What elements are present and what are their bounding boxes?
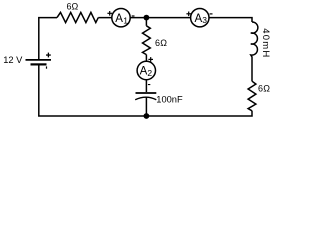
svg-text:A: A — [140, 65, 148, 77]
svg-text:1: 1 — [123, 16, 128, 26]
ammeter A1 circle — [112, 9, 130, 27]
svg-text:A: A — [195, 13, 203, 25]
battery V1 : plus sign — [46, 53, 51, 58]
ammeter A1 minus terminal sign — [132, 15, 135, 16]
battery V1 : short plate — [31, 63, 47, 65]
svg-text:100nF: 100nF — [156, 95, 183, 105]
svg-text:2: 2 — [147, 68, 152, 78]
svg-text:12 V: 12 V — [3, 55, 23, 65]
resistor R1 6 ohm (top) — [57, 12, 98, 22]
ammeter A2 plus terminal sign — [148, 57, 153, 62]
svg-text:6Ω: 6Ω — [67, 1, 79, 11]
svg-text:6Ω: 6Ω — [258, 83, 270, 93]
resistor R3 6 ohm (bottom right) — [248, 81, 256, 111]
ammeter A3 minus terminal sign — [210, 13, 213, 14]
svg-text:3: 3 — [202, 15, 207, 25]
wire: middle branch from node A down to R2 — [145, 18, 147, 26]
ammeter A2 minus terminal sign — [148, 84, 150, 85]
svg-text:A: A — [115, 13, 123, 25]
ammeter A2 circle — [137, 61, 155, 79]
ammeter A3 circle — [191, 9, 209, 27]
wire: left vertical top (source to top-left corner) — [39, 18, 57, 60]
ammeter A1 plus terminal sign — [107, 11, 112, 16]
wire: capacitor C1 to bottom node B — [145, 98, 147, 117]
wire: top middle segment (R1 to top-right corner) — [98, 18, 252, 22]
svg-text:6Ω: 6Ω — [155, 38, 167, 48]
node B junction dot (bottom) — [144, 113, 150, 119]
node A junction dot (top) — [144, 15, 150, 21]
wire: R2 to capacitor C1 (passes behind ammeter A2) — [145, 55, 147, 92]
wire: bottom right segment — [146, 111, 252, 116]
battery V1 12V : long plate — [26, 59, 52, 61]
svg-text:40mH: 40mH — [260, 28, 271, 57]
inductor L1 40mH — [251, 22, 258, 81]
wire: left vertical bottom — [39, 65, 147, 116]
battery V1 : minus tick — [46, 66, 47, 68]
capacitor C1 top plate — [136, 92, 157, 94]
capacitor C1 bottom curved plate — [135, 97, 156, 100]
ammeter A3 plus terminal sign — [186, 12, 191, 17]
resistor R2 6 ohm (middle branch) — [143, 26, 151, 55]
